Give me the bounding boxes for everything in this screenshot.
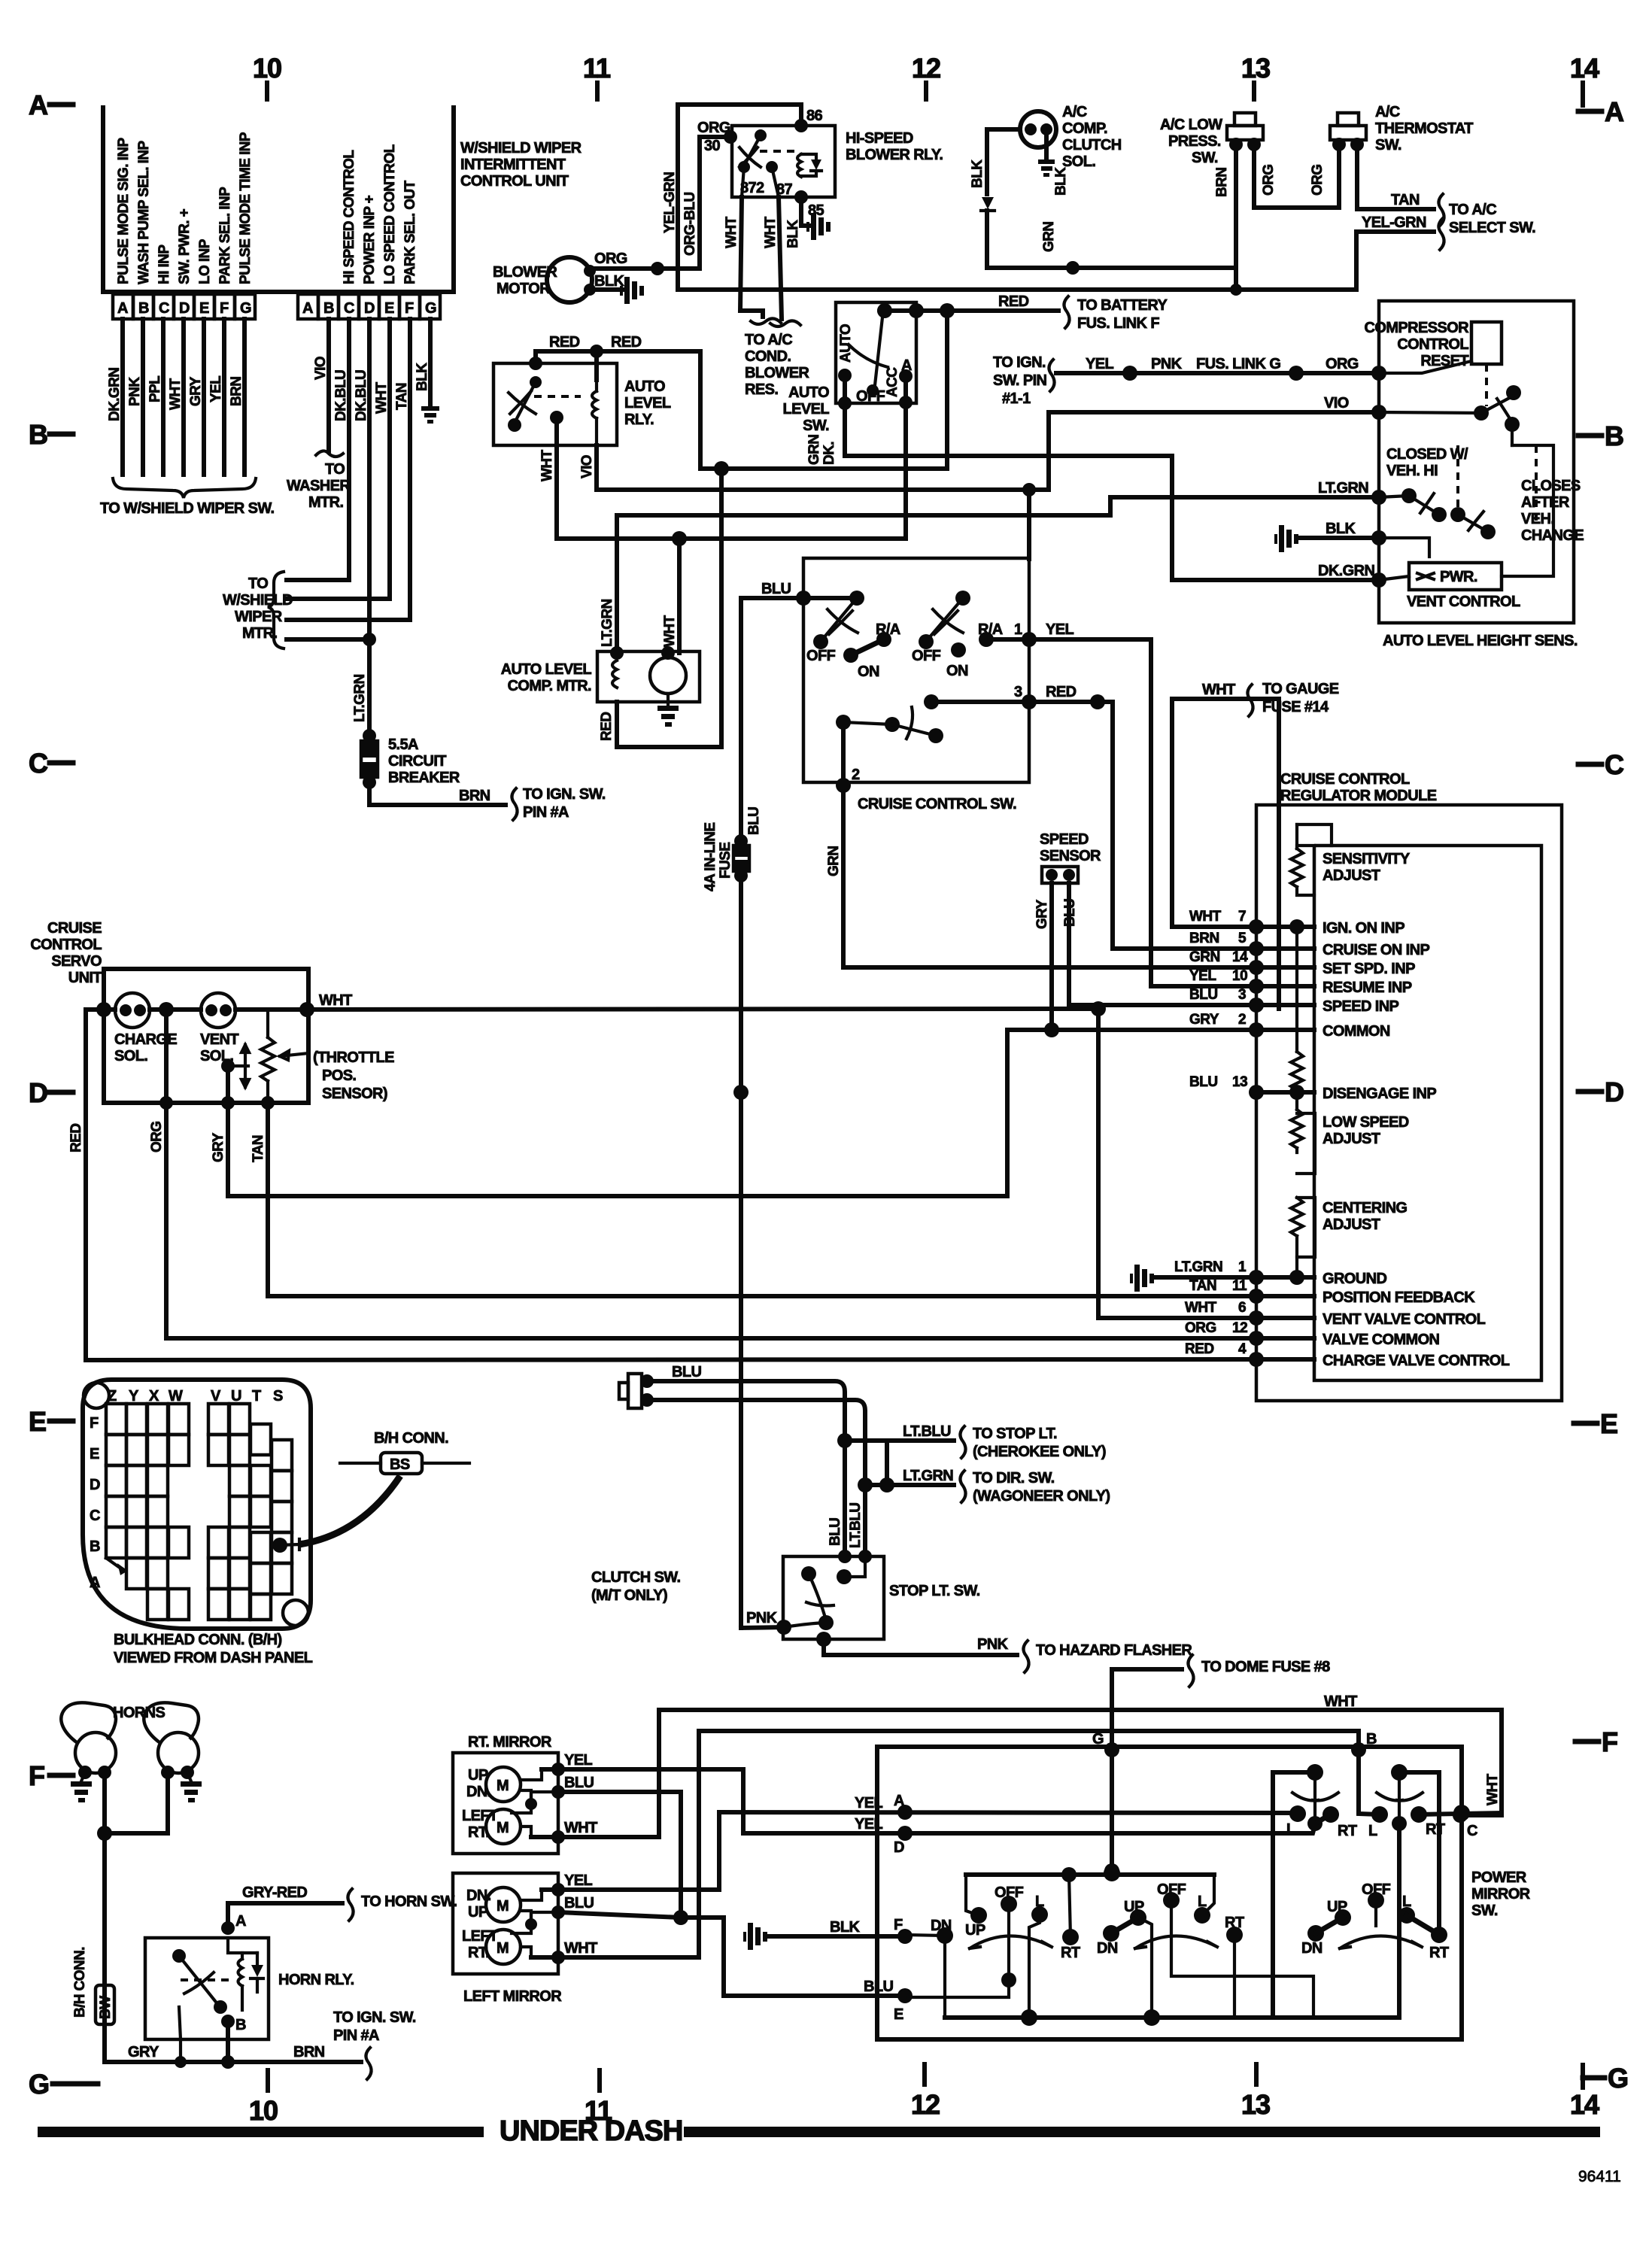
power mirror sw box xyxy=(877,1747,1531,2039)
svg-text:TAN: TAN xyxy=(394,383,410,410)
svg-text:TO: TO xyxy=(325,461,345,478)
svg-text:CIRCUIT: CIRCUIT xyxy=(388,753,446,770)
stop lt sw box xyxy=(783,1556,980,1639)
left mirror box xyxy=(453,1873,562,2005)
svg-text:INTERMITTENT: INTERMITTENT xyxy=(460,156,566,173)
svg-text:ORG: ORG xyxy=(1310,165,1326,196)
svg-text:4A IN-LINE: 4A IN-LINE xyxy=(703,823,718,891)
wire GRY common from servo xyxy=(1007,1030,1256,1196)
svg-text:COMMON: COMMON xyxy=(1323,1023,1390,1040)
svg-text:WHT: WHT xyxy=(1324,1693,1357,1710)
svg-text:COND.: COND. xyxy=(745,348,791,365)
svg-text:UP: UP xyxy=(468,1904,488,1921)
svg-text:RED: RED xyxy=(549,334,580,351)
svg-text:SW. PIN: SW. PIN xyxy=(993,372,1047,389)
svg-text:AUTO: AUTO xyxy=(788,384,829,401)
svg-text:ADJUST: ADJUST xyxy=(1323,1216,1380,1233)
svg-text:WHT: WHT xyxy=(319,992,352,1009)
svg-text:13: 13 xyxy=(1232,1074,1247,1090)
svg-text:C: C xyxy=(29,748,48,779)
svg-text:S: S xyxy=(273,1388,283,1404)
svg-text:HORN RLY.: HORN RLY. xyxy=(278,1972,354,1988)
clutch sw BLU wire to stop light xyxy=(647,1381,845,1556)
svg-text:B: B xyxy=(1605,421,1623,451)
svg-text:YEL: YEL xyxy=(564,1752,592,1769)
svg-text:14: 14 xyxy=(1570,2089,1599,2120)
svg-text:1: 1 xyxy=(1238,1259,1247,1275)
svg-text:A: A xyxy=(302,300,313,317)
svg-text:COMPRESSOR: COMPRESSOR xyxy=(1365,320,1470,336)
svg-text:SPEED INP: SPEED INP xyxy=(1323,998,1399,1015)
svg-text:VENT: VENT xyxy=(200,1031,238,1048)
svg-text:DK.BLU: DK.BLU xyxy=(333,370,349,421)
svg-text:ON: ON xyxy=(946,663,968,679)
grid column label 13 bottom xyxy=(1241,2064,1270,2120)
svg-text:Z: Z xyxy=(108,1388,117,1404)
svg-text:CRUISE: CRUISE xyxy=(47,920,102,937)
svg-text:DK.GRN: DK.GRN xyxy=(107,368,123,421)
svg-text:TO STOP LT.: TO STOP LT. xyxy=(973,1426,1057,1442)
relay switch arm and cross xyxy=(739,129,796,170)
svg-text:OFF: OFF xyxy=(856,388,885,405)
rocker group 3 xyxy=(1301,1881,1449,1961)
svg-text:TO HORN SW.: TO HORN SW. xyxy=(361,1893,457,1910)
wire VIO from auto level relay xyxy=(579,412,1049,490)
module pin 10 resume inp xyxy=(1189,968,1412,996)
svg-text:TO: TO xyxy=(248,575,268,592)
svg-text:FUS. LINK G: FUS. LINK G xyxy=(1196,356,1280,372)
svg-text:CRUISE CONTROL SW.: CRUISE CONTROL SW. xyxy=(858,796,1016,812)
svg-text:7: 7 xyxy=(1238,909,1246,925)
rocker group 1 xyxy=(905,1875,1080,2018)
horn relay coil return to bottom wire xyxy=(175,2007,187,2068)
svg-text:FUSE #14: FUSE #14 xyxy=(1262,699,1329,715)
wire WHT to gauge fuse 14 xyxy=(1172,681,1339,927)
svg-text:YEL: YEL xyxy=(564,1872,592,1889)
svg-text:YEL: YEL xyxy=(1046,621,1073,638)
svg-text:TO IGN. SW.: TO IGN. SW. xyxy=(523,786,606,803)
svg-text:CONTROL UNIT: CONTROL UNIT xyxy=(460,173,569,190)
svg-text:DK.BLU: DK.BLU xyxy=(354,370,369,421)
svg-text:C: C xyxy=(1467,1823,1477,1839)
module pin 1 ground xyxy=(1130,1259,1386,1292)
svg-text:RT.: RT. xyxy=(468,1945,489,1961)
svg-text:AUTO: AUTO xyxy=(838,324,854,363)
svg-text:E: E xyxy=(384,300,394,317)
horn relay switch xyxy=(172,1949,233,2014)
svg-text:GRN: GRN xyxy=(1189,949,1220,965)
hi-speed blower relay box xyxy=(732,126,943,197)
wire VIO into height sensor xyxy=(1049,395,1386,420)
wire YEL-GRN to a/c select sw xyxy=(1356,214,1444,290)
svg-text:MOTOR: MOTOR xyxy=(497,281,551,297)
svg-text:WHT: WHT xyxy=(1202,682,1235,698)
bulkhead row letters xyxy=(90,1415,100,1591)
svg-text:TO W/SHIELD WIPER SW.: TO W/SHIELD WIPER SW. xyxy=(100,500,275,517)
svg-text:ORG: ORG xyxy=(1185,1320,1216,1336)
svg-text:CONTROL: CONTROL xyxy=(1397,336,1468,353)
wire GRY to horn relay xyxy=(105,2044,361,2069)
svg-text:GRY: GRY xyxy=(211,1132,226,1162)
svg-text:SELECT SW.: SELECT SW. xyxy=(1449,220,1535,236)
sensitivity adjust resistor xyxy=(1291,824,1411,895)
wire to ign sw pin 1-1 with YEL PNK FUS.LINK G ORG xyxy=(993,354,1471,407)
svg-text:POWER: POWER xyxy=(1471,1869,1527,1886)
bulkhead A-row pointer arrow xyxy=(106,1558,128,1575)
svg-text:WHT: WHT xyxy=(1185,1300,1217,1316)
grid column label 11 bottom xyxy=(585,2070,612,2126)
svg-text:ON: ON xyxy=(858,663,879,680)
wire WHT/BLK from relay 87 to a/c cond blower res xyxy=(763,197,800,326)
auto level height sensor box xyxy=(1379,301,1578,649)
module pin 4 charge valve control xyxy=(1185,1341,1510,1369)
power mirror pin C xyxy=(1453,1774,1501,1839)
svg-text:ORG: ORG xyxy=(1326,356,1359,372)
power mirror pin D xyxy=(894,1826,913,1856)
height sensor reset dashed link and switch xyxy=(1379,364,1521,445)
svg-text:B/H CONN.: B/H CONN. xyxy=(72,1947,88,2018)
svg-text:YEL: YEL xyxy=(208,375,224,402)
wire TAN position feedback xyxy=(251,1103,1256,1296)
w/shield wiper intermittent control unit outline xyxy=(103,105,454,292)
speed sensor xyxy=(1040,831,1101,883)
wire LT.BLU to stop lt cherokee only xyxy=(837,1423,1106,1460)
svg-text:M: M xyxy=(497,1940,509,1957)
svg-text:L: L xyxy=(1368,1823,1377,1839)
svg-text:10: 10 xyxy=(1232,968,1247,984)
svg-text:SENSOR: SENSOR xyxy=(1040,848,1101,864)
svg-text:A: A xyxy=(901,357,912,374)
connector group 1 wires with colors xyxy=(107,319,244,475)
bulkhead pin grid left cluster xyxy=(106,1404,189,1620)
svg-text:PULSE MODE TIME INP: PULSE MODE TIME INP xyxy=(238,132,254,284)
auto level comp motor box xyxy=(501,651,700,702)
svg-text:PNK: PNK xyxy=(977,1636,1009,1653)
grid row label B left xyxy=(29,419,73,450)
wire WHT servo vent valve xyxy=(1091,699,1279,1318)
circuit breaker 5.5A xyxy=(361,729,460,789)
connector group 2 wire C DK.BLU xyxy=(333,319,349,580)
svg-text:D: D xyxy=(894,1839,904,1856)
svg-text:6: 6 xyxy=(1238,1300,1246,1316)
blower motor xyxy=(493,257,596,302)
svg-text:AUTO LEVEL HEIGHT SENS.: AUTO LEVEL HEIGHT SENS. xyxy=(1383,633,1578,649)
svg-text:A: A xyxy=(894,1793,904,1809)
svg-text:10: 10 xyxy=(249,2095,278,2126)
svg-text:BLK: BLK xyxy=(970,159,985,188)
svg-text:E: E xyxy=(90,1446,99,1462)
servo WHT bus line xyxy=(96,992,1098,1017)
power mirror pin A xyxy=(894,1793,913,1820)
svg-text:UNIT: UNIT xyxy=(68,970,102,986)
svg-text:C: C xyxy=(159,300,169,317)
svg-text:PPL: PPL xyxy=(147,375,163,402)
svg-text:D: D xyxy=(179,300,190,317)
wire PNK into stop lt sw xyxy=(741,1610,784,1628)
svg-text:A/C: A/C xyxy=(1062,104,1087,120)
connector group 2 wire B VIO to washer motor xyxy=(287,319,351,511)
connector group 2 wire G BLK to ground xyxy=(415,319,439,424)
connector group 1 pin labels (rotated) xyxy=(116,132,254,284)
svg-text:TO A/C: TO A/C xyxy=(745,332,792,348)
svg-text:WHT: WHT xyxy=(539,450,555,481)
svg-text:A: A xyxy=(29,90,48,120)
svg-text:HI INP: HI INP xyxy=(156,244,172,284)
power mirror internal top bus xyxy=(966,1865,1214,1882)
svg-text:10: 10 xyxy=(253,53,281,84)
svg-text:#1-1: #1-1 xyxy=(1002,390,1031,407)
rt mirror BLU wire xyxy=(531,1775,681,1918)
svg-text:LT.BLU: LT.BLU xyxy=(903,1423,951,1440)
wire WHT from auto level relay to acc xyxy=(539,402,906,546)
wire RED over auto level relay xyxy=(536,334,721,469)
svg-text:TO GAUGE: TO GAUGE xyxy=(1262,681,1339,697)
svg-text:1: 1 xyxy=(1014,621,1022,638)
left mirror dn/up motor xyxy=(466,1887,542,1933)
bulkhead caption xyxy=(114,1632,313,1666)
svg-text:ACC: ACC xyxy=(885,367,900,397)
svg-text:WHT: WHT xyxy=(1485,1774,1501,1805)
wire LT.GRN into height sensor xyxy=(617,480,1386,515)
power mirror pin G xyxy=(1092,1731,1119,1878)
grid row label A right xyxy=(1578,83,1624,127)
wire RED branch down to comp motor xyxy=(599,469,721,747)
bulkhead connector outline xyxy=(83,1380,311,1629)
svg-text:2: 2 xyxy=(852,767,860,783)
cruise control regulator module outer box xyxy=(1256,771,1562,1401)
svg-text:RT: RT xyxy=(1061,1945,1080,1961)
svg-text:(CHEROKEE ONLY): (CHEROKEE ONLY) xyxy=(973,1444,1106,1460)
grid row label F left xyxy=(29,1760,73,1791)
vent solenoid xyxy=(200,993,238,1064)
svg-text:BRN: BRN xyxy=(293,2044,325,2060)
svg-text:POWER INP +: POWER INP + xyxy=(362,195,378,284)
servo box bottom junction dots xyxy=(159,1096,275,1110)
svg-text:BLU: BLU xyxy=(1189,1074,1218,1090)
svg-text:RED: RED xyxy=(68,1124,84,1152)
comp motor coil xyxy=(610,646,624,688)
svg-text:GRY: GRY xyxy=(188,376,204,406)
svg-text:WHT: WHT xyxy=(1189,909,1222,925)
svg-text:R/A: R/A xyxy=(978,621,1003,638)
cruise control servo unit box xyxy=(30,920,308,1103)
svg-text:11: 11 xyxy=(583,53,611,84)
svg-text:WHT: WHT xyxy=(564,1820,597,1836)
svg-text:LT.GRN: LT.GRN xyxy=(1174,1259,1222,1275)
svg-text:UP: UP xyxy=(1327,1899,1347,1915)
svg-text:BLK: BLK xyxy=(830,1919,860,1936)
svg-text:RT: RT xyxy=(1429,1945,1449,1961)
label to a/c cond blower res xyxy=(745,332,809,398)
svg-text:HI SPEED CONTROL: HI SPEED CONTROL xyxy=(342,150,357,284)
svg-text:SET SPD. INP: SET SPD. INP xyxy=(1323,961,1415,977)
auto level relay coil xyxy=(592,380,597,445)
svg-text:A: A xyxy=(1605,96,1624,127)
svg-text:DK.: DK. xyxy=(821,442,837,465)
svg-text:CRUISE CONTROL: CRUISE CONTROL xyxy=(1280,771,1410,788)
svg-text:12: 12 xyxy=(1232,1320,1247,1336)
svg-text:TO A/C: TO A/C xyxy=(1449,202,1496,218)
svg-text:11: 11 xyxy=(1232,1278,1247,1294)
wire BLU feed to cruise sw xyxy=(741,581,857,606)
wire WHT into comp motor xyxy=(662,539,679,653)
wire RED charge valve xyxy=(68,1010,1256,1360)
svg-text:PNK: PNK xyxy=(127,377,143,406)
power mirror pin B xyxy=(1324,1693,1377,1772)
grid column label 10 top xyxy=(253,53,281,99)
svg-text:WHT: WHT xyxy=(374,382,390,414)
svg-text:14: 14 xyxy=(1570,53,1599,84)
svg-text:VIO: VIO xyxy=(579,455,595,478)
svg-text:PRESS.: PRESS. xyxy=(1168,133,1221,150)
module pin 6 vent valve control xyxy=(1185,1300,1486,1328)
svg-text:YEL-GRN: YEL-GRN xyxy=(662,172,678,233)
svg-text:G: G xyxy=(425,300,436,317)
relay coil and diode xyxy=(797,154,821,177)
svg-text:RED: RED xyxy=(1185,1341,1214,1357)
svg-text:UP: UP xyxy=(965,1922,985,1939)
module pin 11 position feedback xyxy=(1189,1278,1475,1306)
svg-text:D: D xyxy=(90,1477,100,1493)
power mirror pin F xyxy=(894,1917,913,1944)
svg-text:F: F xyxy=(220,300,229,317)
svg-text:B: B xyxy=(1366,1731,1377,1748)
svg-text:LT.GRN: LT.GRN xyxy=(1318,480,1368,496)
svg-text:T: T xyxy=(252,1388,261,1404)
svg-text:LEVEL: LEVEL xyxy=(783,401,830,418)
svg-text:2: 2 xyxy=(1238,1012,1246,1028)
module pin 12 valve common xyxy=(1185,1320,1440,1348)
svg-text:CHARGE VALVE CONTROL: CHARGE VALVE CONTROL xyxy=(1323,1353,1510,1369)
svg-text:12: 12 xyxy=(911,2089,940,2120)
svg-text:G: G xyxy=(1092,1731,1104,1748)
svg-text:LEFT: LEFT xyxy=(462,1808,498,1824)
svg-text:WHT: WHT xyxy=(168,378,184,410)
horn 2 xyxy=(144,1702,199,1779)
speed sensor BLU wire xyxy=(1062,883,1256,1005)
svg-text:GRY: GRY xyxy=(128,2044,159,2060)
svg-text:A: A xyxy=(90,1574,100,1591)
svg-text:12: 12 xyxy=(912,53,940,84)
module pin 5 cruise on inp xyxy=(1189,931,1429,958)
wire ACC down from auto level sw xyxy=(899,376,913,409)
module pin 7 ign on inp xyxy=(1189,909,1405,937)
yel-grn bus wire along y=385 xyxy=(678,287,1356,292)
svg-text:D: D xyxy=(1605,1076,1623,1107)
svg-text:B/H CONN.: B/H CONN. xyxy=(374,1430,448,1447)
svg-text:DN.: DN. xyxy=(466,1887,491,1904)
svg-text:LT.BLU: LT.BLU xyxy=(848,1503,864,1548)
svg-text:VIEWED FROM DASH PANEL: VIEWED FROM DASH PANEL xyxy=(114,1650,313,1666)
svg-text:YEL: YEL xyxy=(1086,356,1113,372)
svg-text:SW. PWR. +: SW. PWR. + xyxy=(177,208,193,284)
a/c comp clutch solenoid xyxy=(1020,104,1122,170)
svg-text:YEL: YEL xyxy=(1189,968,1216,984)
svg-text:TO IGN. SW.: TO IGN. SW. xyxy=(333,2009,416,2026)
svg-text:BLU: BLU xyxy=(564,1775,594,1791)
svg-text:3: 3 xyxy=(1238,987,1246,1003)
svg-text:VEH. HI: VEH. HI xyxy=(1386,463,1438,479)
under dash banner right bar xyxy=(684,2127,1600,2137)
horn relay terminal A xyxy=(221,1913,246,1935)
svg-text:BLU: BLU xyxy=(746,807,762,835)
horn relay terminal B xyxy=(221,2015,246,2062)
clutch sw second wire xyxy=(647,1400,865,1556)
wire PNK to hazard flasher xyxy=(824,1636,1192,1672)
svg-text:DN: DN xyxy=(1301,1940,1323,1957)
svg-text:WASH PUMP SEL. INP: WASH PUMP SEL. INP xyxy=(136,141,152,284)
a/c clutch sol BLK wire and diode xyxy=(970,129,1020,268)
horn 1 xyxy=(61,1702,116,1779)
svg-text:ORG: ORG xyxy=(594,251,627,267)
svg-text:FUS. LINK F: FUS. LINK F xyxy=(1077,315,1159,332)
svg-text:AUTO: AUTO xyxy=(624,378,665,395)
svg-text:W: W xyxy=(169,1388,183,1404)
svg-text:RED: RED xyxy=(599,712,615,741)
svg-text:SPEED: SPEED xyxy=(1040,831,1089,848)
relay terminal 87 xyxy=(766,161,793,198)
clutch sw label xyxy=(591,1569,680,1604)
module pin 2 common xyxy=(1189,1012,1390,1040)
wire BLK from relay 85 to ground xyxy=(785,197,831,248)
relay terminal 85 xyxy=(794,190,824,219)
svg-text:PNK: PNK xyxy=(746,1610,778,1626)
svg-text:DISENGAGE INP: DISENGAGE INP xyxy=(1323,1086,1436,1102)
grid row label D right xyxy=(1578,1076,1623,1107)
cruise sw switch 3 xyxy=(836,694,943,743)
svg-text:BLOWER: BLOWER xyxy=(745,365,809,381)
a/c low press BRN wire down to bus xyxy=(1214,144,1242,296)
bulkhead column letters xyxy=(108,1388,283,1404)
svg-text:COMP. MTR.: COMP. MTR. xyxy=(508,678,591,694)
svg-text:ORG-BLU: ORG-BLU xyxy=(682,193,698,256)
svg-text:SW.: SW. xyxy=(1375,137,1401,153)
svg-text:A/C LOW: A/C LOW xyxy=(1160,117,1222,133)
svg-text:TO DIR. SW.: TO DIR. SW. xyxy=(973,1470,1055,1486)
grid row label C right xyxy=(1578,749,1624,780)
svg-text:IGN. ON INP: IGN. ON INP xyxy=(1323,920,1405,937)
rt mirror WHT wire xyxy=(531,1710,1502,1844)
svg-text:BLK: BLK xyxy=(1053,167,1069,196)
svg-text:RED: RED xyxy=(998,293,1029,310)
left mirror WHT wire xyxy=(531,1731,1359,1964)
a/c thermostat sw xyxy=(1310,104,1473,196)
svg-text:RT.: RT. xyxy=(468,1824,489,1841)
svg-text:13: 13 xyxy=(1241,53,1270,84)
connector group 1 cells A-G xyxy=(113,294,255,319)
svg-text:M: M xyxy=(497,1820,509,1836)
svg-text:B: B xyxy=(138,300,149,317)
cruise sw pin 2 GRN wire xyxy=(826,722,1256,967)
svg-text:TAN: TAN xyxy=(1189,1278,1216,1294)
arc from BS to bulkhead pin B/S xyxy=(272,1476,400,1553)
svg-text:BLU: BLU xyxy=(1062,899,1078,927)
svg-text:WHT: WHT xyxy=(564,1940,597,1957)
svg-text:GRY: GRY xyxy=(1034,899,1050,929)
relay terminal 872 xyxy=(738,161,764,197)
svg-text:BRN: BRN xyxy=(1214,168,1230,197)
wire RED branch to battery line xyxy=(714,311,947,476)
svg-text:TO HAZARD FLASHER: TO HAZARD FLASHER xyxy=(1036,1642,1192,1659)
svg-text:13: 13 xyxy=(1241,2089,1270,2120)
svg-text:ADJUST: ADJUST xyxy=(1323,867,1380,884)
svg-text:B: B xyxy=(29,419,47,450)
svg-text:E: E xyxy=(29,1406,46,1437)
svg-text:5: 5 xyxy=(1238,931,1247,946)
cruise sw switch 2 xyxy=(912,591,1003,679)
horn 2 ground xyxy=(181,1772,202,1802)
svg-text:BLK: BLK xyxy=(785,220,801,248)
